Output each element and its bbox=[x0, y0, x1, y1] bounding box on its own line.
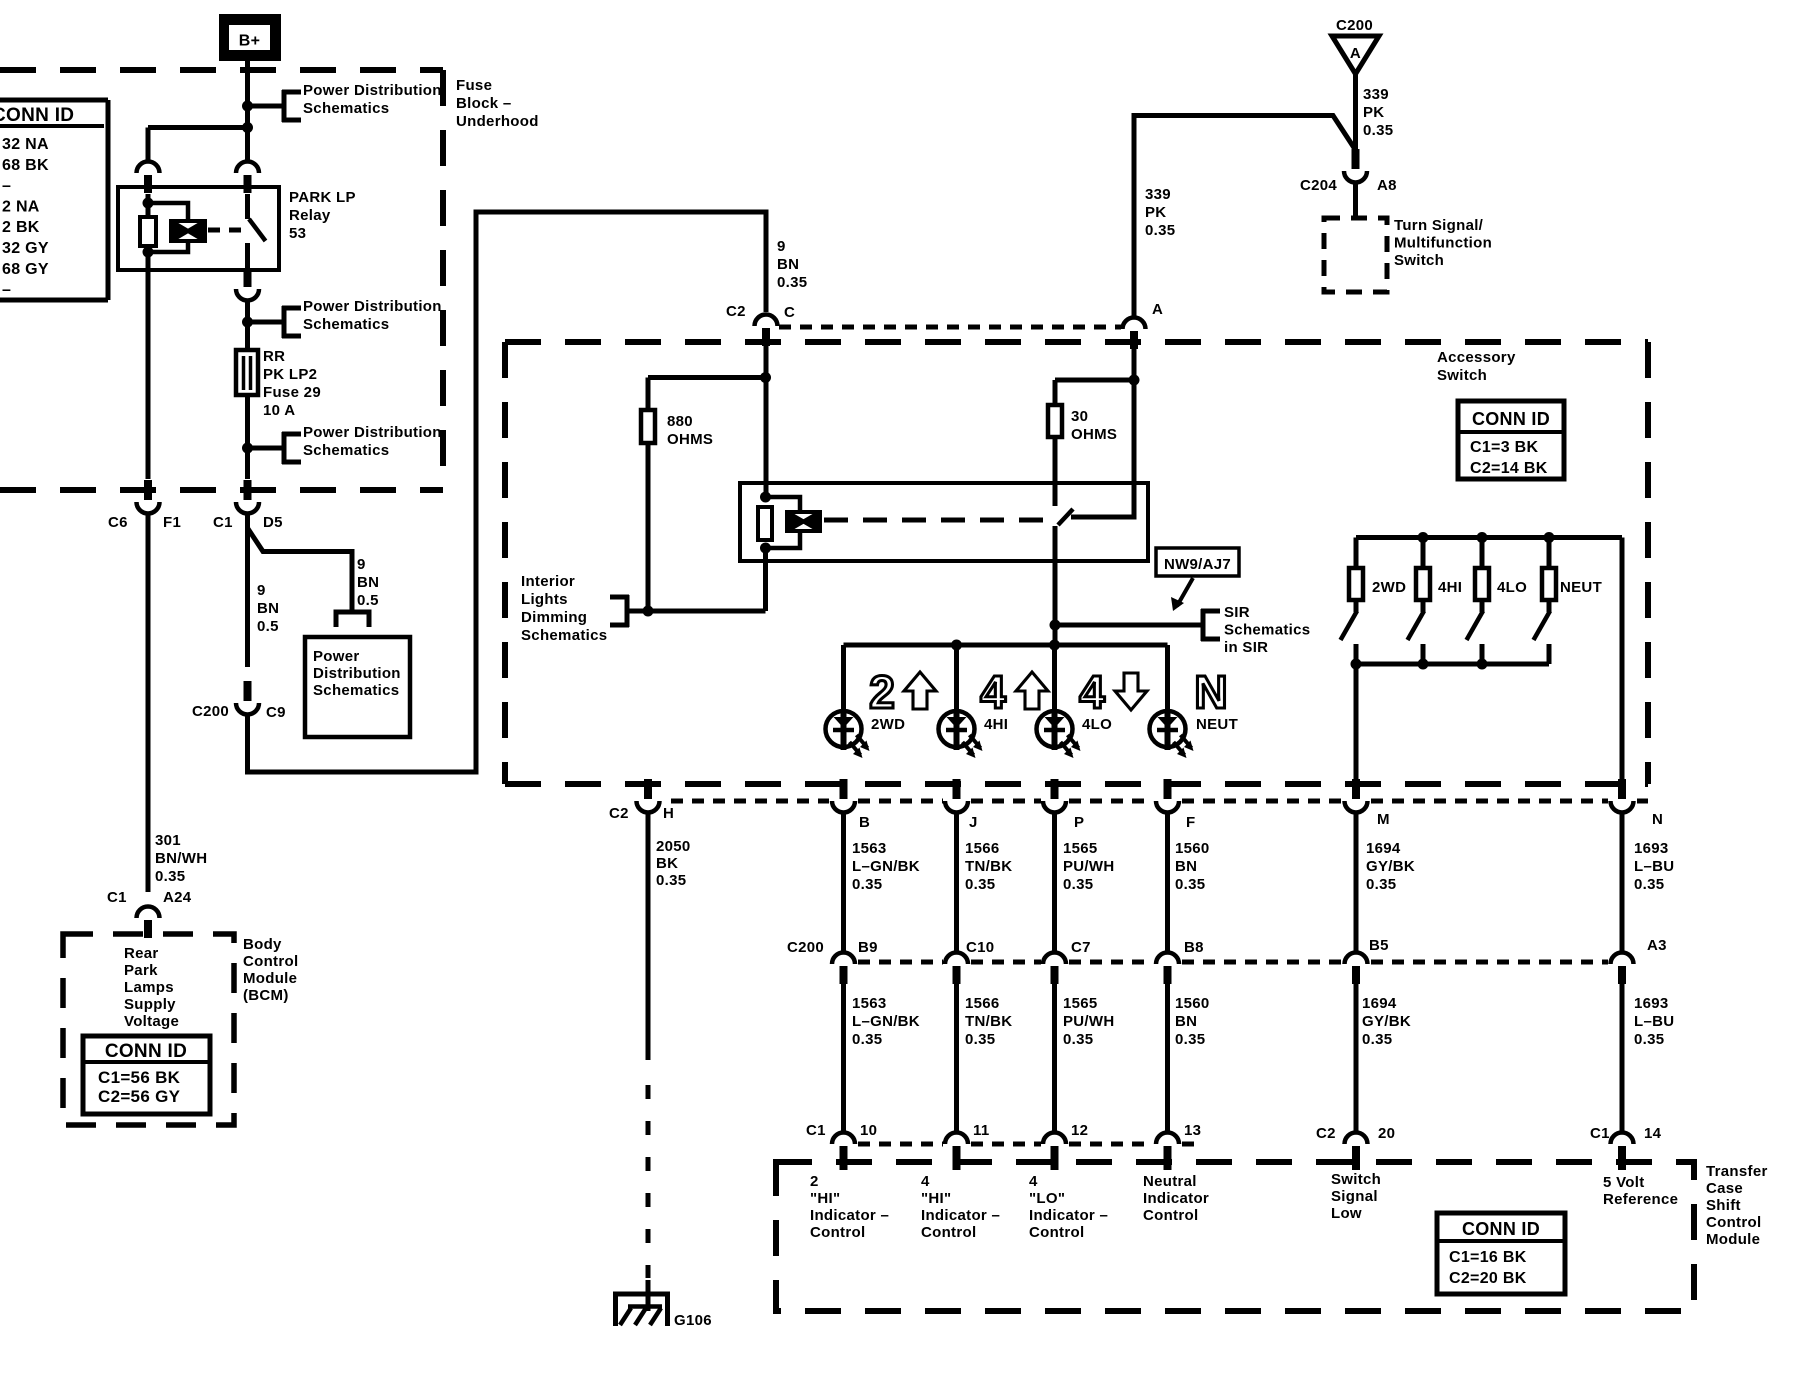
svg-text:32 NA: 32 NA bbox=[2, 136, 49, 153]
pin 4 LO indicator label bbox=[1029, 1173, 1108, 1241]
label 880 OHMS bbox=[667, 413, 713, 448]
svg-text:13: 13 bbox=[1184, 1122, 1201, 1139]
TCSCM conn id box bbox=[1437, 1213, 1565, 1294]
BCM dashed box bbox=[63, 934, 234, 1125]
svg-text:Fuse: Fuse bbox=[456, 77, 492, 94]
svg-text:Indicator –: Indicator – bbox=[921, 1207, 1000, 1224]
svg-text:A: A bbox=[1350, 45, 1361, 62]
svg-text:Control: Control bbox=[243, 953, 298, 970]
svg-text:PK: PK bbox=[1145, 204, 1166, 221]
wire H dashed to ground bbox=[646, 1085, 651, 1278]
svg-text:C1: C1 bbox=[806, 1122, 826, 1139]
svg-text:10: 10 bbox=[860, 1122, 877, 1139]
off-page ref power distribution 3 bbox=[248, 424, 442, 464]
svg-text:0.35: 0.35 bbox=[852, 876, 882, 893]
relay output wire bbox=[244, 270, 252, 287]
svg-text:Underhood: Underhood bbox=[456, 113, 539, 130]
resistor 30 ohms bbox=[1048, 405, 1062, 506]
connector C7 bbox=[1043, 939, 1091, 984]
svg-text:2050: 2050 bbox=[656, 838, 691, 855]
connector A bbox=[1123, 301, 1164, 381]
svg-text:Low: Low bbox=[1331, 1205, 1362, 1222]
turn signal switch label bbox=[1394, 217, 1492, 269]
connector B8 bbox=[1156, 939, 1204, 984]
svg-text:68 GY: 68 GY bbox=[2, 261, 49, 278]
svg-text:Relay: Relay bbox=[289, 207, 331, 224]
svg-text:B: B bbox=[859, 814, 870, 831]
wire relay coil to connector F1 bbox=[146, 270, 151, 479]
svg-text:1563: 1563 bbox=[852, 995, 887, 1012]
svg-text:RR: RR bbox=[263, 348, 285, 365]
wire dimmer bus bbox=[648, 609, 766, 614]
ground G106 bbox=[613, 1280, 712, 1329]
wire led 4LO bbox=[1052, 645, 1057, 711]
svg-text:NEUT: NEUT bbox=[1196, 716, 1238, 733]
wire label 1565 PU/WH 0.35 bbox=[1063, 840, 1115, 893]
svg-text:Park: Park bbox=[124, 962, 158, 979]
svg-text:1694: 1694 bbox=[1362, 995, 1397, 1012]
acc relay box bbox=[740, 483, 1148, 561]
wire label 9 BN 0.5 bbox=[257, 582, 279, 635]
svg-text:Lamps: Lamps bbox=[124, 979, 174, 996]
svg-text:C2: C2 bbox=[609, 805, 629, 822]
wire M to C200 row bbox=[1354, 813, 1359, 951]
svg-text:BN: BN bbox=[357, 574, 379, 591]
svg-text:Neutral: Neutral bbox=[1143, 1173, 1197, 1190]
svg-text:0.35: 0.35 bbox=[1175, 876, 1205, 893]
wire C9 loop to C2/C bbox=[248, 212, 767, 772]
accessory switch label bbox=[1437, 349, 1516, 384]
interior lights dimming label bbox=[521, 573, 607, 644]
svg-text:32 GY: 32 GY bbox=[2, 240, 49, 257]
wire D5 diagonal branch bbox=[248, 528, 353, 611]
svg-text:L–BU: L–BU bbox=[1634, 858, 1674, 875]
wire N drop bbox=[1620, 538, 1625, 781]
svg-text:(BCM): (BCM) bbox=[243, 987, 289, 1004]
svg-text:Control: Control bbox=[1706, 1214, 1761, 1231]
svg-text:Multifunction: Multifunction bbox=[1394, 235, 1492, 252]
relay PARK LP box bbox=[118, 187, 279, 270]
svg-text:C: C bbox=[784, 304, 795, 321]
connector J bbox=[945, 779, 978, 831]
svg-text:0.35: 0.35 bbox=[155, 868, 185, 885]
svg-text:2: 2 bbox=[810, 1173, 819, 1190]
svg-text:2WD: 2WD bbox=[1372, 579, 1406, 596]
pin 5 volt reference label bbox=[1603, 1174, 1678, 1208]
connector C204/A8 bbox=[1300, 149, 1397, 194]
wire B to C200 row bbox=[841, 813, 846, 951]
wire label 1560 BN 0.35 bbox=[1175, 840, 1210, 893]
svg-text:0.35: 0.35 bbox=[965, 876, 995, 893]
switch 4HI bbox=[1408, 538, 1463, 665]
wire to connector D5 bbox=[245, 448, 250, 479]
wire 30 ohms branch bbox=[1055, 380, 1134, 405]
connector 13 bbox=[1156, 1122, 1201, 1164]
relay socket connector (coil side) bbox=[137, 162, 160, 193]
svg-text:GY/BK: GY/BK bbox=[1366, 858, 1415, 875]
wire N to C200 row bbox=[1620, 813, 1625, 951]
switch bank top bus bbox=[1356, 532, 1622, 543]
fuse label bbox=[263, 348, 321, 419]
svg-text:SIR: SIR bbox=[1224, 604, 1250, 621]
svg-text:1565: 1565 bbox=[1063, 995, 1098, 1012]
connector B5 bbox=[1345, 937, 1389, 984]
svg-text:Supply: Supply bbox=[124, 996, 176, 1013]
svg-text:0.35: 0.35 bbox=[656, 872, 686, 889]
pin 2 HI indicator label bbox=[810, 1173, 889, 1241]
svg-text:11: 11 bbox=[973, 1122, 989, 1139]
svg-text:C1: C1 bbox=[107, 889, 127, 906]
wire C7 to C1 row bbox=[1052, 984, 1057, 1131]
off-page ref power distribution 1 bbox=[248, 82, 442, 122]
svg-text:4HI: 4HI bbox=[984, 716, 1008, 733]
accessory conn id box bbox=[1458, 401, 1564, 479]
wire label 339 PK 0.35 (riser) bbox=[1145, 186, 1175, 239]
svg-text:Indicator –: Indicator – bbox=[1029, 1207, 1108, 1224]
svg-text:Switch: Switch bbox=[1437, 367, 1487, 384]
fuse block label bbox=[456, 77, 539, 130]
glyph 4 up bbox=[980, 666, 1048, 718]
connector C1/D5 bbox=[213, 480, 283, 531]
svg-text:Schematics: Schematics bbox=[313, 682, 399, 699]
wire label 1566 TN/BK 0.35 (2) bbox=[965, 995, 1012, 1048]
svg-text:D5: D5 bbox=[263, 514, 283, 531]
svg-text:C2=20 BK: C2=20 BK bbox=[1449, 1270, 1527, 1287]
svg-text:PU/WH: PU/WH bbox=[1063, 858, 1115, 875]
svg-text:0.35: 0.35 bbox=[1363, 122, 1393, 139]
wire label 1693 L-BU 0.35 bbox=[1634, 840, 1674, 893]
svg-text:30: 30 bbox=[1071, 408, 1088, 425]
svg-text:Power: Power bbox=[313, 648, 360, 665]
svg-text:C9: C9 bbox=[266, 704, 286, 721]
svg-text:Block –: Block – bbox=[456, 95, 511, 112]
svg-text:Rear: Rear bbox=[124, 945, 159, 962]
TCSCM label bbox=[1706, 1163, 1768, 1248]
svg-text:Switch: Switch bbox=[1394, 252, 1444, 269]
svg-text:GY/BK: GY/BK bbox=[1362, 1013, 1411, 1030]
svg-text:Switch: Switch bbox=[1331, 1171, 1381, 1188]
svg-text:0.35: 0.35 bbox=[1634, 876, 1664, 893]
switch bank bottom bus bbox=[1351, 659, 1550, 670]
power symbol B+ bbox=[221, 16, 279, 59]
connector 12 bbox=[1043, 1122, 1088, 1164]
wire F to C200 row bbox=[1165, 813, 1170, 951]
svg-text:B5: B5 bbox=[1369, 937, 1389, 954]
led feed bus bbox=[844, 640, 1168, 651]
svg-text:PARK LP: PARK LP bbox=[289, 189, 356, 206]
relay coil resistor bbox=[140, 194, 156, 270]
wire to turn signal switch bbox=[1353, 183, 1358, 218]
svg-text:Distribution: Distribution bbox=[313, 665, 401, 682]
connector C10 bbox=[945, 939, 994, 984]
svg-text:4: 4 bbox=[1079, 666, 1105, 718]
svg-text:Lights: Lights bbox=[521, 591, 568, 608]
svg-text:N: N bbox=[1194, 666, 1227, 718]
connector B bbox=[832, 779, 870, 831]
dotted harness line C2-C to A bbox=[779, 325, 1121, 330]
wire label 1694 GY/BK 0.35 (2) bbox=[1362, 995, 1411, 1048]
wire C200 to C204 bbox=[1353, 74, 1358, 150]
svg-text:C1=16 BK: C1=16 BK bbox=[1449, 1249, 1527, 1266]
svg-text:339: 339 bbox=[1363, 86, 1389, 103]
relay coil loop wire bbox=[148, 203, 188, 252]
svg-text:CONN ID: CONN ID bbox=[1472, 409, 1550, 429]
connector C1/14 bbox=[1590, 1125, 1662, 1164]
LED 4HI bbox=[939, 711, 1009, 758]
wire led NEUT bbox=[1165, 645, 1170, 711]
svg-text:PU/WH: PU/WH bbox=[1063, 1013, 1115, 1030]
acc relay coil loop bbox=[766, 497, 801, 548]
svg-text:Module: Module bbox=[1706, 1231, 1760, 1248]
svg-text:4LO: 4LO bbox=[1082, 716, 1112, 733]
junction to power distribution ref 3 bbox=[242, 443, 253, 454]
connector M bbox=[1345, 779, 1390, 828]
svg-text:C2: C2 bbox=[726, 303, 746, 320]
connector C200 triangle bbox=[1332, 17, 1379, 74]
svg-text:TN/BK: TN/BK bbox=[965, 858, 1012, 875]
wire coil to dimmer bus bbox=[763, 548, 768, 611]
power distribution schematics text bbox=[313, 648, 401, 699]
resistor 880 ohms bbox=[641, 410, 655, 611]
wire C10 to C1 row bbox=[954, 984, 959, 1131]
svg-text:Indicator –: Indicator – bbox=[810, 1207, 889, 1224]
wire led 4HI bbox=[954, 645, 959, 711]
wire label 301 BN/WH 0.35 bbox=[155, 832, 207, 885]
interior lights bracket bbox=[610, 595, 648, 627]
svg-text:2WD: 2WD bbox=[871, 716, 905, 733]
wire M drop bbox=[1354, 664, 1359, 780]
LED NEUT bbox=[1150, 711, 1239, 758]
svg-text:Schematics: Schematics bbox=[303, 442, 389, 459]
BCM label bbox=[243, 936, 298, 1004]
svg-text:BN: BN bbox=[1175, 858, 1197, 875]
svg-text:53: 53 bbox=[289, 225, 306, 242]
junction interior lights bbox=[643, 606, 654, 617]
svg-text:4: 4 bbox=[980, 666, 1006, 718]
svg-text:P: P bbox=[1074, 814, 1084, 831]
svg-text:0.35: 0.35 bbox=[852, 1031, 882, 1048]
junction to power distribution ref 1 bbox=[242, 101, 253, 112]
svg-text:C1: C1 bbox=[1590, 1125, 1610, 1142]
acc relay switch arm bbox=[1058, 509, 1073, 525]
svg-text:NEUT: NEUT bbox=[1560, 579, 1602, 596]
wire label 9 BN 0.5 (branch) bbox=[357, 556, 379, 609]
BCM pin label bbox=[124, 945, 179, 1030]
wire branch to relay coil bbox=[148, 122, 253, 160]
junction 880 branch bbox=[760, 372, 771, 383]
wire J to C200 row bbox=[954, 813, 959, 951]
acc relay coil junctions bbox=[760, 492, 771, 554]
switch NEUT bbox=[1534, 538, 1603, 665]
svg-text:Schematics: Schematics bbox=[303, 100, 389, 117]
junction SIR ref bbox=[1050, 620, 1061, 631]
svg-text:20: 20 bbox=[1378, 1125, 1395, 1142]
svg-text:in SIR: in SIR bbox=[1224, 639, 1268, 656]
svg-text:C6: C6 bbox=[108, 514, 128, 531]
svg-text:"HI": "HI" bbox=[921, 1190, 951, 1207]
svg-text:CONN ID: CONN ID bbox=[0, 105, 74, 126]
svg-text:Indicator: Indicator bbox=[1143, 1190, 1209, 1207]
wire label 1566 TN/BK 0.35 bbox=[965, 840, 1012, 893]
svg-text:B+: B+ bbox=[239, 33, 261, 50]
svg-text:4: 4 bbox=[1029, 1173, 1038, 1190]
glyph 2 up bbox=[869, 666, 936, 718]
connector F bbox=[1156, 779, 1195, 831]
connector A3 bbox=[1611, 937, 1667, 984]
svg-text:PK LP2: PK LP2 bbox=[263, 366, 317, 383]
connector C2/20 bbox=[1316, 1125, 1395, 1164]
svg-text:1560: 1560 bbox=[1175, 995, 1210, 1012]
svg-text:Control: Control bbox=[1143, 1207, 1198, 1224]
relay switch bbox=[248, 194, 266, 270]
svg-text:0.35: 0.35 bbox=[1063, 876, 1093, 893]
junction 30 ohms branch bbox=[1129, 375, 1140, 386]
svg-text:L–GN/BK: L–GN/BK bbox=[852, 1013, 920, 1030]
svg-text:1565: 1565 bbox=[1063, 840, 1098, 857]
wire B8 to C1 row bbox=[1165, 984, 1170, 1131]
svg-text:4: 4 bbox=[921, 1173, 930, 1190]
row4 bar stubs bbox=[844, 1162, 1623, 1170]
svg-text:C2: C2 bbox=[1316, 1125, 1336, 1142]
svg-text:Dimming: Dimming bbox=[521, 609, 587, 626]
svg-text:Control: Control bbox=[1029, 1224, 1084, 1241]
wire B5 to C1 row bbox=[1354, 984, 1359, 1131]
svg-text:9: 9 bbox=[777, 238, 786, 255]
svg-text:Reference: Reference bbox=[1603, 1191, 1678, 1208]
fuse RR PK LP2 bbox=[236, 350, 258, 395]
wire switch contact bbox=[1071, 380, 1134, 517]
switch 2WD bbox=[1341, 538, 1407, 665]
pin 4 HI indicator label bbox=[921, 1173, 1000, 1241]
svg-text:C1: C1 bbox=[213, 514, 233, 531]
svg-text:BN: BN bbox=[1175, 1013, 1197, 1030]
svg-text:CONN ID: CONN ID bbox=[105, 1041, 187, 1062]
svg-text:OHMS: OHMS bbox=[1071, 426, 1117, 443]
svg-text:1693: 1693 bbox=[1634, 995, 1669, 1012]
svg-text:0.35: 0.35 bbox=[1362, 1031, 1392, 1048]
svg-text:PK: PK bbox=[1363, 104, 1384, 121]
svg-text:L–BU: L–BU bbox=[1634, 1013, 1674, 1030]
svg-text:A24: A24 bbox=[163, 889, 192, 906]
svg-text:2 NA: 2 NA bbox=[2, 198, 40, 215]
svg-text:C2=14 BK: C2=14 BK bbox=[1470, 460, 1548, 477]
svg-text:F: F bbox=[1186, 814, 1195, 831]
acc relay coil resistor bbox=[758, 507, 772, 540]
svg-text:Control: Control bbox=[810, 1224, 865, 1241]
svg-text:C7: C7 bbox=[1071, 939, 1091, 956]
svg-text:Shift: Shift bbox=[1706, 1197, 1741, 1214]
svg-text:CONN ID: CONN ID bbox=[1462, 1219, 1540, 1239]
off-page down bracket bbox=[336, 612, 369, 627]
wire label 9 BN 0.35 bbox=[777, 238, 807, 291]
acc relay coil dashed link bbox=[824, 518, 1046, 523]
accessory switch dashed box bbox=[505, 342, 1648, 784]
wire label 1693 L-BU 0.35 (2) bbox=[1634, 995, 1674, 1048]
wire A3 to C1 row bbox=[1620, 984, 1625, 1131]
wire B+ into fuse block bbox=[245, 59, 250, 160]
svg-text:"LO": "LO" bbox=[1029, 1190, 1065, 1207]
wire 880 ohms branch bbox=[648, 378, 766, 411]
svg-text:BK: BK bbox=[656, 855, 678, 872]
svg-text:0.35: 0.35 bbox=[1634, 1031, 1664, 1048]
box NW9/AJ7 bbox=[1156, 548, 1239, 611]
svg-text:0.35: 0.35 bbox=[1175, 1031, 1205, 1048]
relay coil-switch dashed link bbox=[208, 228, 246, 233]
LED 2WD bbox=[826, 711, 906, 758]
svg-text:14: 14 bbox=[1644, 1125, 1662, 1142]
svg-text:A8: A8 bbox=[1377, 177, 1397, 194]
svg-text:B9: B9 bbox=[858, 939, 878, 956]
pin switch signal low label bbox=[1331, 1171, 1381, 1222]
svg-text:Power Distribution: Power Distribution bbox=[303, 298, 442, 315]
relay label bbox=[289, 189, 356, 242]
svg-text:F1: F1 bbox=[163, 514, 181, 531]
relay coil symbol bbox=[171, 221, 205, 241]
svg-text:H: H bbox=[663, 805, 674, 822]
svg-text:C1=3 BK: C1=3 BK bbox=[1470, 439, 1538, 456]
junction to power distribution ref 2 bbox=[242, 317, 253, 328]
connector P bbox=[1043, 779, 1084, 831]
dotted harness line C1 row bbox=[858, 1142, 1200, 1147]
wire fuse to D5 bbox=[245, 395, 250, 448]
svg-text:Schematics: Schematics bbox=[1224, 622, 1310, 639]
svg-text:C200: C200 bbox=[787, 939, 824, 956]
svg-text:0.35: 0.35 bbox=[965, 1031, 995, 1048]
svg-text:B8: B8 bbox=[1184, 939, 1204, 956]
wire P to C200 row bbox=[1052, 813, 1057, 951]
svg-text:Power Distribution: Power Distribution bbox=[303, 424, 442, 441]
svg-text:0.35: 0.35 bbox=[1063, 1031, 1093, 1048]
svg-text:"HI": "HI" bbox=[810, 1190, 840, 1207]
wire label 339 PK 0.35 (upper) bbox=[1363, 86, 1393, 139]
connector C2/H bbox=[609, 779, 674, 822]
power distribution schematics box bbox=[305, 637, 410, 737]
svg-text:NW9/AJ7: NW9/AJ7 bbox=[1164, 556, 1231, 573]
svg-text:301: 301 bbox=[155, 832, 181, 849]
BCM conn id box bbox=[83, 1036, 210, 1114]
wire C into box bbox=[764, 346, 769, 498]
svg-text:880: 880 bbox=[667, 413, 693, 430]
svg-text:N: N bbox=[1652, 811, 1663, 828]
wire label 1694 GY/BK 0.35 bbox=[1366, 840, 1415, 893]
connector C200/C9 bbox=[192, 681, 286, 721]
svg-text:0.35: 0.35 bbox=[777, 274, 807, 291]
connector C200/B9 bbox=[787, 939, 878, 984]
svg-text:TN/BK: TN/BK bbox=[965, 1013, 1012, 1030]
svg-text:Transfer: Transfer bbox=[1706, 1163, 1768, 1180]
svg-text:Power Distribution: Power Distribution bbox=[303, 82, 442, 99]
acc relay coil symbol bbox=[787, 512, 820, 531]
connector N bbox=[1611, 779, 1664, 828]
svg-text:G106: G106 bbox=[674, 1312, 712, 1329]
connector C6/F1 bbox=[108, 480, 181, 531]
svg-text:Control: Control bbox=[921, 1224, 976, 1241]
svg-text:68 BK: 68 BK bbox=[2, 157, 49, 174]
svg-text:0.5: 0.5 bbox=[357, 592, 379, 609]
svg-text:1560: 1560 bbox=[1175, 840, 1210, 857]
connector C1/A24 bbox=[107, 889, 192, 938]
svg-text:2: 2 bbox=[869, 666, 895, 718]
svg-text:Schematics: Schematics bbox=[303, 316, 389, 333]
svg-text:1563: 1563 bbox=[852, 840, 887, 857]
pin neutral indicator label bbox=[1143, 1173, 1209, 1224]
svg-text:1566: 1566 bbox=[965, 995, 1000, 1012]
svg-text:0.35: 0.35 bbox=[1145, 222, 1175, 239]
dotted harness line C200 row bbox=[858, 960, 1608, 965]
label 30 OHMS bbox=[1071, 408, 1117, 443]
wire switch pivot down bbox=[1053, 526, 1058, 645]
switch 4LO bbox=[1467, 538, 1528, 665]
